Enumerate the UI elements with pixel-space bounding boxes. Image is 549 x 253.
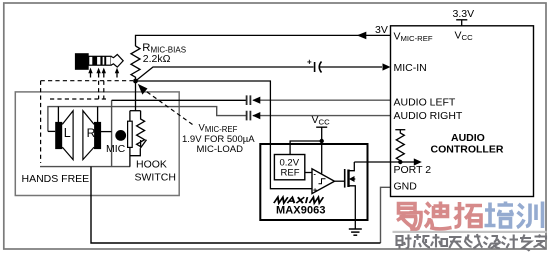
svg-text:MAX9063: MAX9063: [276, 204, 326, 216]
svg-text:VMIC-REF: VMIC-REF: [394, 31, 433, 44]
svg-text:+: +: [307, 58, 312, 67]
svg-text:3V: 3V: [375, 24, 388, 36]
svg-text:MIC-LOAD: MIC-LOAD: [197, 144, 244, 155]
svg-text:REF: REF: [281, 167, 300, 178]
svg-text:VMIC-REF: VMIC-REF: [199, 123, 238, 135]
svg-text:+: +: [313, 187, 317, 194]
svg-text:HANDS FREE: HANDS FREE: [22, 173, 90, 185]
svg-text:R: R: [87, 126, 96, 140]
svg-text:3.3V: 3.3V: [453, 8, 475, 20]
svg-text:1.9V FOR 500µA: 1.9V FOR 500µA: [182, 134, 255, 145]
svg-text:VCC: VCC: [455, 30, 474, 43]
svg-text:GND: GND: [394, 181, 418, 193]
svg-text:AUDIO RIGHT: AUDIO RIGHT: [394, 110, 463, 122]
svg-text:2.2kΩ: 2.2kΩ: [143, 53, 171, 65]
svg-text:L: L: [64, 126, 71, 140]
svg-text:HOOK: HOOK: [136, 159, 167, 171]
svg-text:AUDIO LEFT: AUDIO LEFT: [394, 97, 456, 109]
svg-text:MIC-IN: MIC-IN: [394, 62, 427, 74]
svg-text:AUDIO: AUDIO: [451, 132, 485, 144]
svg-text:CONTROLLER: CONTROLLER: [431, 143, 504, 155]
svg-text:SWITCH: SWITCH: [135, 171, 176, 183]
svg-text:PORT 2: PORT 2: [394, 164, 432, 176]
svg-text:MIC: MIC: [106, 143, 126, 155]
svg-text:-: -: [314, 172, 317, 179]
